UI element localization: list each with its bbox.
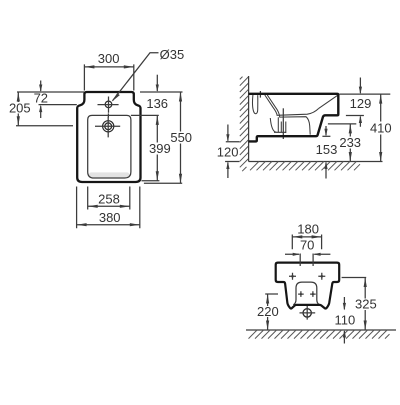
faucet hole inner circle bbox=[105, 123, 112, 130]
svg-text:399: 399 bbox=[149, 141, 171, 156]
dimension 153 bbox=[322, 126, 330, 179]
svg-text:300: 300 bbox=[98, 51, 120, 66]
interior bowl back lower line bbox=[267, 95, 310, 135]
svg-text:410: 410 bbox=[370, 121, 392, 136]
dimension 410 bbox=[379, 94, 382, 161]
wall line bbox=[248, 76, 250, 162]
dimension 70 bbox=[285, 253, 330, 266]
svg-text:72: 72 bbox=[34, 90, 48, 105]
svg-text:110: 110 bbox=[335, 313, 356, 328]
floor line front view bbox=[246, 329, 396, 331]
dimension 325 bbox=[342, 278, 367, 331]
dimension 220 bbox=[265, 294, 278, 330]
floor hatching side view bbox=[250, 162, 360, 171]
drain trap detail bbox=[270, 117, 286, 133]
svg-text:136: 136 bbox=[146, 96, 168, 111]
dimension 550 bbox=[144, 92, 182, 183]
side view bidet outline bbox=[249, 94, 339, 142]
upper fixing hole left bbox=[289, 273, 296, 280]
dimension 180 bbox=[292, 235, 321, 250]
lower fixing hole left bbox=[298, 291, 304, 297]
bidet profile interior: tap centerline bbox=[259, 91, 261, 98]
inner bowl rim bbox=[88, 115, 131, 178]
upper fixing hole right bbox=[318, 273, 325, 280]
tap hole small circle bbox=[105, 101, 112, 108]
svg-text:129: 129 bbox=[350, 96, 372, 111]
dimension 399 bbox=[142, 115, 160, 180]
svg-text:153: 153 bbox=[316, 142, 338, 157]
dimension 120 bbox=[225, 125, 240, 179]
svg-text:380: 380 bbox=[99, 210, 121, 225]
lower fixing hole right bbox=[310, 291, 316, 297]
dimension 300 bbox=[84, 64, 133, 90]
svg-text:70: 70 bbox=[300, 238, 314, 253]
tap hole crosshair bbox=[98, 97, 119, 113]
dimension 72 bbox=[17, 81, 84, 119]
front view outline bbox=[276, 263, 340, 309]
label Ø35 leader bbox=[112, 53, 159, 102]
svg-text:205: 205 bbox=[9, 100, 31, 115]
svg-text:325: 325 bbox=[355, 297, 377, 312]
dimension 205 bbox=[16, 92, 73, 126]
dimension 136 bbox=[131, 75, 183, 116]
dimension 233 bbox=[328, 124, 356, 162]
dimension 129 bbox=[340, 78, 391, 127]
svg-text:550: 550 bbox=[170, 130, 192, 145]
front trap dome bbox=[293, 282, 319, 305]
interior rim diagonal bbox=[318, 95, 337, 108]
plan outline body bbox=[77, 92, 140, 182]
dimension 110 bbox=[343, 297, 346, 344]
floor hatching front view bbox=[249, 330, 390, 339]
faucet hole crosshair bbox=[95, 117, 120, 138]
faucet hole outer circle bbox=[103, 121, 114, 132]
interior bowl back upper line bbox=[265, 95, 319, 115]
svg-text:180: 180 bbox=[297, 222, 319, 237]
inner bowl shading bbox=[89, 172, 130, 177]
svg-text:Ø35: Ø35 bbox=[160, 47, 185, 62]
svg-text:220: 220 bbox=[257, 304, 279, 319]
drain circle bbox=[303, 309, 311, 317]
interior water channel hook bbox=[253, 95, 258, 114]
svg-text:258: 258 bbox=[98, 191, 120, 206]
svg-text:120: 120 bbox=[217, 145, 239, 160]
floor line side view bbox=[249, 161, 383, 163]
wall hatching bbox=[240, 77, 249, 172]
drain centerline bbox=[282, 108, 284, 139]
svg-text:233: 233 bbox=[339, 135, 361, 150]
inner rim centerline tick bbox=[107, 113, 109, 117]
dimension 380 bbox=[77, 187, 140, 229]
drain crosshair bbox=[300, 306, 316, 320]
dimension 258 bbox=[88, 187, 130, 210]
